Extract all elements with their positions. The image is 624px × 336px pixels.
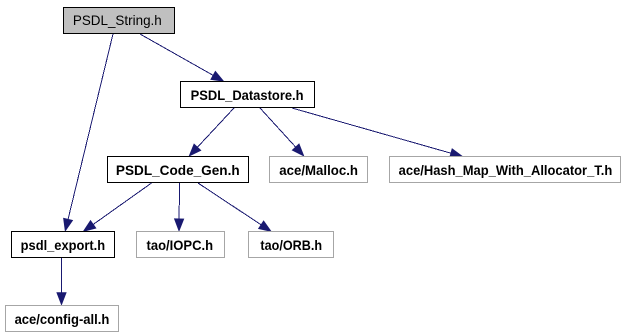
- node ace/Malloc.h: [269, 156, 368, 183]
- node PSDL_Datastore.h: [180, 81, 315, 108]
- edge PSDL_Code_Gen.h -> tao/IOPC.h: [174, 183, 184, 232]
- node PSDL_Code_Gen.h: [107, 156, 249, 183]
- edge psdl_export.h -> ace/config-all.h: [56, 258, 66, 306]
- edge PSDL_Datastore.h -> PSDL_Code_Gen.h: [189, 108, 235, 157]
- node ace/config-all.h: [5, 305, 119, 332]
- node tao/IOPC.h: [136, 231, 225, 258]
- edge PSDL_String.h -> PSDL_Datastore.h: [140, 34, 225, 82]
- node ace/Hash_Map_With_Allocator_T.h: [389, 156, 621, 183]
- edge PSDL_Code_Gen.h -> tao/ORB.h: [198, 183, 272, 232]
- edge PSDL_Datastore.h -> ace/Malloc.h: [260, 108, 305, 157]
- edge PSDL_Code_Gen.h -> psdl_export.h: [83, 183, 152, 232]
- node psdl_export.h: [11, 231, 115, 258]
- node PSDL_String.h (root): [63, 7, 175, 34]
- node tao/ORB.h: [248, 231, 334, 258]
- edge PSDL_String.h -> psdl_export.h: [63, 34, 113, 232]
- edge PSDL_Datastore.h -> ace/Hash_Map_With_Allocator_T.h: [292, 108, 464, 158]
